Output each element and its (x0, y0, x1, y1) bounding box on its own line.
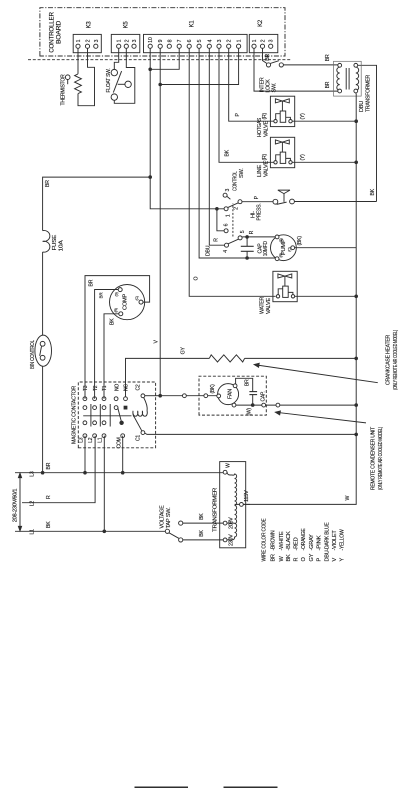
connector K1 pin 8 (167, 44, 171, 48)
svg-text:115V: 115V (244, 489, 250, 502)
junction COM (121, 471, 125, 475)
svg-text:VOLTAGE: VOLTAGE (159, 505, 165, 529)
connector K2 pin 1 (252, 44, 256, 48)
contactor terminal COM (121, 434, 125, 438)
control sw blade 1-2 (228, 203, 239, 208)
line valve LV (270, 137, 294, 167)
connector K5 pin 2 (124, 44, 128, 48)
junction heater on trunk (354, 357, 358, 361)
wire: K1 pin9 V line to coil/fan junction (159, 48, 161, 395)
contactor NC fixed contact (124, 406, 128, 410)
wire cap bottom branch (246, 251, 248, 258)
tap sw contact 208V (179, 521, 183, 525)
svg-text:BK: BK (370, 188, 376, 195)
svg-text:BK: BK (199, 529, 205, 536)
float sw contact c (111, 94, 117, 100)
wire: T2 to comp S (95, 290, 119, 399)
connector K2 pin 2 (260, 44, 264, 48)
contactor NC blade (118, 408, 122, 422)
svg-text:K3: K3 (86, 21, 92, 29)
contactor terminal T2 (93, 397, 97, 401)
svg-text:C2: C2 (135, 384, 141, 390)
svg-text:REMOTE CONDENSER UNIT: REMOTE CONDENSER UNIT (370, 426, 376, 490)
bin control B/C (35, 335, 52, 366)
control sw contact 5 (238, 236, 242, 240)
svg-text:VALVE: VALVE (263, 120, 269, 137)
svg-text:O: O (301, 557, 307, 562)
svg-text:FUSE: FUSE (52, 234, 58, 250)
connector K1 pin 10 (148, 44, 152, 48)
svg-text:L1: L1 (30, 529, 36, 535)
contactor terminal NC (124, 397, 128, 401)
svg-text:HOTGAS: HOTGAS (257, 118, 263, 137)
svg-text:BR: BR (265, 53, 271, 60)
svg-text:1: 1 (117, 39, 123, 42)
contactor gang bar (83, 415, 131, 417)
svg-text:230V: 230V (228, 534, 234, 546)
supply dimension arrows (18, 473, 21, 531)
fan terminal bottom (232, 403, 236, 407)
control sw gang link (232, 204, 234, 237)
connector K2 (249, 34, 277, 52)
control sw contact 3 (223, 193, 227, 197)
junction L1 (103, 530, 107, 534)
pump terminal S (275, 235, 279, 239)
pump motor body (271, 235, 297, 261)
control sw junction dot (215, 207, 219, 211)
svg-text:BR: BR (325, 81, 331, 88)
transformer tap 208V (223, 521, 227, 525)
svg-text:6: 6 (224, 223, 230, 226)
connector K1 pin 6 (187, 44, 191, 48)
svg-text:COM: COM (116, 437, 122, 448)
svg-text:-YELLOW: -YELLOW (340, 529, 346, 551)
wire: 115V tap to trunk W (243, 503, 250, 505)
wire: K1 pin2 P feed to hot gas valve (229, 48, 274, 121)
svg-text:(W): (W) (246, 408, 252, 416)
svg-text:THERMISTOR: THERMISTOR (61, 74, 67, 105)
water valve name (260, 297, 272, 314)
connector K1 pin 5 (197, 44, 201, 48)
transformer terminals (338, 63, 342, 67)
control switch CS (215, 168, 246, 253)
line L1 (15, 530, 165, 532)
wire: K1 pin6 orange feed to water valve (189, 48, 275, 296)
wire: L3 line to contactor COM (122, 436, 124, 473)
svg-text:-DARK BLUE: -DARK BLUE (324, 522, 330, 550)
wire: control sw contact 2 to hi-press (242, 201, 273, 203)
transformer box (334, 61, 362, 96)
contactor coil terminal C2 (141, 394, 145, 398)
hi-press contact 1 (273, 199, 278, 204)
svg-text:9: 9 (158, 39, 164, 42)
condenser fan motor FM (158, 376, 384, 490)
water valve WV (273, 271, 297, 301)
wire: interlock to transformer primary (283, 64, 337, 66)
wire: K1 pin10 feed to control sw (150, 48, 224, 209)
connector K2 pin 3 (269, 44, 273, 48)
wire: BK line to transformer (358, 65, 377, 201)
connector K3 pin 1 (76, 44, 80, 48)
svg-text:BR: BR (270, 554, 276, 561)
bin control blade (40, 346, 42, 355)
connector K3 pin 2 (85, 44, 89, 48)
svg-text:Y: Y (340, 558, 346, 562)
wire: fan W to common trunk (236, 404, 356, 406)
svg-text:-PINK: -PINK (316, 535, 322, 551)
contactor L labels (79, 437, 123, 448)
connector point 3 (262, 403, 266, 407)
float switch FS (106, 48, 135, 103)
svg-text:WIRE COLOR CODE: WIRE COLOR CODE (261, 518, 267, 561)
contactor terminal L3 (83, 434, 87, 438)
connector K1 pin 1 (237, 44, 241, 48)
svg-text:T3: T3 (83, 385, 89, 391)
svg-text:DBU: DBU (206, 245, 212, 256)
contactor bridge bars (90, 404, 92, 427)
pump terminal R (275, 257, 279, 261)
contactor pole contacts moving (83, 421, 87, 425)
compressor motor COMP (85, 276, 150, 399)
svg-text:BR: BR (98, 292, 103, 299)
svg-text:4: 4 (207, 39, 213, 42)
connector point 2 (204, 394, 208, 398)
wire: bin control to L3 line (42, 366, 44, 472)
svg-text:L2: L2 (30, 501, 36, 507)
wire: hot gas valve to common trunk (292, 120, 356, 122)
junction on L3 line (41, 471, 45, 475)
connector K5 pin 1 (117, 44, 121, 48)
svg-text:V: V (153, 340, 159, 344)
connector K1 pin 7 (177, 44, 181, 48)
fan BR branch to capacitor (236, 378, 253, 391)
wire: K5 pin1 to float sw (114, 48, 118, 69)
svg-text:K2: K2 (258, 19, 264, 27)
controller board outline (40, 8, 285, 56)
wire: K2 pin2 to interlock (263, 48, 267, 63)
connector point 1 (183, 394, 187, 398)
hi-press blade (277, 202, 287, 204)
thermistor bulb (67, 80, 69, 85)
connector K1 pin 2 (227, 44, 231, 48)
svg-text:WATER: WATER (260, 297, 266, 314)
contactor terminal T3 (83, 397, 87, 401)
svg-text:3: 3 (269, 39, 275, 42)
tap sw common (165, 529, 169, 533)
remote condenser callout arrow (275, 411, 366, 423)
interlock contact 2 (279, 63, 283, 67)
svg-text:BOARD: BOARD (56, 20, 63, 44)
svg-text:5: 5 (197, 39, 203, 42)
wire: K1 pin7 jumper to pin10 line (150, 48, 179, 69)
controller board label (48, 12, 62, 53)
comp terminal R (119, 312, 123, 316)
svg-text:DBU: DBU (324, 550, 330, 561)
contactor pole contacts fixed (83, 406, 87, 410)
junction cap bottom (245, 256, 249, 260)
control sw blade 4-5 (228, 239, 238, 244)
fan capacitor (249, 391, 257, 393)
comp label (114, 292, 139, 312)
svg-text:(R): (R) (114, 308, 118, 312)
connector K1 pin 4 (207, 44, 211, 48)
junction L3 (83, 471, 87, 475)
connector K1 (144, 34, 248, 52)
svg-text:10A: 10A (58, 240, 64, 252)
svg-text:P: P (254, 195, 260, 199)
svg-text:-RED: -RED (294, 537, 300, 550)
svg-text:L1: L1 (98, 437, 104, 443)
control transformer T1 (DBU) (334, 61, 372, 112)
svg-text:BK: BK (286, 554, 292, 561)
transformer tap 230V (223, 538, 227, 542)
power supply lines (12, 436, 223, 535)
svg-text:CAP.: CAP. (260, 391, 266, 401)
svg-text:(C): (C) (135, 296, 139, 300)
svg-text:3: 3 (217, 39, 223, 42)
svg-text:2: 2 (234, 207, 240, 210)
fan terminal top (217, 394, 221, 398)
wire color code legend (261, 518, 345, 561)
pump terminal C (291, 246, 295, 250)
control sw contact 1 (224, 207, 228, 211)
pump run capacitor CAP 10MFD (241, 245, 254, 247)
remote condenser note (370, 426, 384, 490)
svg-text:1: 1 (252, 39, 258, 42)
connector K1 pin 9 (158, 44, 162, 48)
primary winding (337, 67, 340, 90)
hi-press label (250, 203, 262, 221)
float sw contact b (125, 81, 131, 87)
junction hot gas on trunk (354, 119, 358, 123)
wire: line valve to common trunk (292, 161, 356, 163)
svg-text:2: 2 (261, 39, 267, 42)
pump motor PM (241, 230, 356, 260)
svg-text:BR: BR (46, 462, 52, 469)
power transformer T2 (213, 462, 250, 548)
svg-text:(ONLY REMOTE AIR COOLED MODEL): (ONLY REMOTE AIR COOLED MODEL) (393, 330, 399, 390)
capacitor label (257, 241, 269, 256)
wire: L1 line to contactor L1 (103, 436, 105, 532)
svg-text:BK: BK (225, 149, 231, 156)
transformer winding (227, 472, 239, 540)
junction water valve on trunk (354, 295, 358, 299)
svg-text:BR: BR (89, 279, 95, 286)
svg-text:VALVE: VALVE (263, 160, 269, 177)
magnetic contactor MC (71, 382, 358, 448)
svg-text:R: R (294, 558, 300, 562)
svg-text:(ONLY REMOTE AIR COOLED MODEL): (ONLY REMOTE AIR COOLED MODEL) (378, 427, 384, 490)
svg-text:W: W (279, 556, 285, 562)
svg-text:2: 2 (86, 39, 92, 42)
board edge dashed line (28, 59, 292, 61)
svg-text:2: 2 (227, 39, 233, 42)
line valve name (257, 160, 269, 177)
crankcase heater callout arrow (254, 363, 378, 382)
interlock switch ILS (260, 48, 338, 92)
svg-text:R: R (249, 230, 255, 234)
contactor terminal L1 (102, 434, 106, 438)
fan terminal right (233, 384, 237, 388)
svg-text:208-230V/60/1: 208-230V/60/1 (12, 488, 18, 522)
svg-text:MAGNETIC CONTACTOR: MAGNETIC CONTACTOR (71, 386, 77, 444)
svg-text:BK: BK (199, 513, 205, 520)
svg-text:10: 10 (148, 37, 154, 43)
fan motor body (218, 384, 239, 405)
connector K5 (111, 34, 140, 52)
svg-text:T2: T2 (93, 385, 99, 391)
wire: K1 pin4 R feed to control sw contact 4 (209, 48, 224, 245)
wire: pump C to common trunk (295, 247, 357, 249)
fuse label (52, 234, 64, 251)
contactor terminal NO (114, 397, 118, 401)
svg-text:-BLACK: -BLACK (286, 531, 292, 551)
svg-text:(Y): (Y) (300, 154, 306, 161)
wire: thermistor loop back to K3 pin2 (78, 48, 95, 105)
tap sw blade (169, 533, 179, 539)
svg-text:1: 1 (76, 39, 82, 42)
svg-text:1: 1 (237, 39, 243, 42)
svg-text:(R): (R) (262, 154, 268, 161)
svg-text:R: R (213, 238, 219, 242)
junction V line (158, 394, 162, 398)
svg-text:TAP SW.: TAP SW. (166, 507, 172, 528)
svg-text:(BK): (BK) (210, 384, 216, 394)
transformer name (359, 75, 372, 112)
svg-text:W: W (225, 463, 231, 468)
svg-text:TRANSFORMER: TRANSFORMER (213, 488, 219, 532)
svg-text:-WHITE: -WHITE (279, 531, 285, 551)
wire: K3 pin1 to thermistor (77, 48, 79, 74)
transformer box (220, 462, 246, 548)
connector K3 (73, 34, 101, 52)
voltage tap switch VTS (159, 505, 223, 542)
svg-text:T1: T1 (102, 385, 108, 391)
wire: contact5 to pump R terminal (242, 236, 275, 238)
svg-text:HI-: HI- (250, 211, 256, 218)
svg-text:K5: K5 (124, 21, 130, 29)
svg-text:V: V (332, 558, 338, 562)
wire: C1 to common trunk (145, 433, 357, 434)
line L2 (22, 436, 95, 503)
svg-text:DBU: DBU (359, 101, 365, 112)
wire cap top branch (246, 237, 248, 246)
svg-text:5: 5 (240, 230, 246, 233)
tap sw contact 230V (179, 538, 183, 542)
svg-text:W: W (345, 496, 351, 501)
common trunk wire (244, 93, 357, 504)
wire: BR branch pin10-line to fuse and L3 (43, 177, 151, 231)
wire: V line to fan feed (160, 395, 217, 397)
svg-text:(Y): (Y) (300, 113, 306, 120)
secondary winding (356, 67, 359, 90)
svg-text:BR: BR (245, 379, 251, 386)
comp motor body (110, 285, 145, 320)
svg-text:(BK): (BK) (297, 236, 303, 246)
svg-text:CRANKCASE HEATER: CRANKCASE HEATER (386, 335, 392, 385)
wire: 230V contact to transformer (183, 539, 223, 541)
contactor coil terminal C1 (141, 431, 145, 435)
svg-text:PRESS.: PRESS. (257, 203, 263, 221)
wire: K1 pin5 DBU feed to pump (199, 48, 275, 258)
junction cap top (245, 235, 249, 239)
svg-text:8: 8 (167, 39, 173, 42)
svg-text:FLOAT SW.: FLOAT SW. (106, 68, 112, 93)
float sw contact b stub (118, 83, 125, 85)
comp terminal C (139, 300, 143, 304)
svg-text:TRANSFORMER: TRANSFORMER (366, 75, 372, 112)
svg-text:-GRAY: -GRAY (309, 534, 315, 551)
svg-text:VALVE: VALVE (266, 297, 272, 314)
svg-text:BK: BK (46, 521, 52, 528)
junction line valve on trunk (354, 161, 358, 165)
page footer mark 1 (135, 786, 189, 788)
svg-text:GY: GY (181, 347, 187, 355)
junction C1 wire on trunk (354, 433, 358, 437)
control sw contact 6 (224, 229, 228, 233)
thermistor TH (61, 48, 95, 105)
svg-text:BK: BK (109, 318, 115, 325)
wire: K2 pin1 to transformer primary (254, 48, 338, 91)
svg-text:7: 7 (177, 39, 183, 42)
svg-text:208V: 208V (228, 517, 234, 529)
svg-text:GY: GY (309, 553, 315, 561)
contactor terminal L2 (93, 434, 97, 438)
svg-text:SW.: SW. (239, 168, 245, 178)
hot gas valve name (257, 118, 269, 137)
wire: water valve to common trunk (295, 295, 356, 297)
wire: hi-press to BK riser (294, 201, 376, 203)
svg-text:2: 2 (124, 39, 130, 42)
wire: L3 to contactor L3 (84, 436, 86, 473)
wire: K1 pin1 jumper to pin9 line (160, 48, 238, 84)
tap sw name (159, 505, 172, 529)
connector K3 pin 3 (94, 44, 98, 48)
svg-text:(C): (C) (287, 247, 291, 251)
wire: 208V contact to transformer (183, 522, 223, 524)
thermistor resistor element (75, 74, 82, 94)
svg-text:3: 3 (132, 39, 138, 42)
junction BR branch on pin10 line (148, 175, 152, 179)
contactor coil MC coil (133, 398, 147, 431)
control sw jumper 1-6 (217, 209, 224, 231)
heater resistor element (209, 355, 244, 362)
fuse F1 10A (43, 230, 50, 252)
svg-text:BR: BR (45, 180, 51, 187)
svg-text:K1: K1 (190, 20, 196, 28)
interlock name (260, 77, 278, 92)
wire: capacitor to W wire (252, 395, 254, 406)
svg-text:L3: L3 (79, 437, 85, 443)
svg-text:P: P (235, 113, 241, 117)
wire: T3 BR to comp C (85, 276, 150, 399)
comp terminal S (118, 288, 122, 292)
svg-text:NC: NC (124, 384, 130, 391)
control sw labels (223, 189, 246, 253)
svg-text:4: 4 (223, 250, 229, 253)
hi-pressure switch HP (250, 190, 294, 220)
crankcase heater CH (126, 330, 400, 397)
junction pin7/pin10 (148, 68, 152, 72)
remote condenser dashed enclosure (199, 376, 266, 415)
svg-text:NO: NO (114, 384, 120, 391)
svg-text:CONTROL: CONTROL (233, 171, 239, 191)
svg-text:6: 6 (187, 39, 193, 42)
svg-text:(S): (S) (279, 238, 283, 242)
svg-text:3: 3 (94, 39, 100, 42)
wire: heater to common trunk (245, 357, 357, 359)
hot gas valve HGV (270, 96, 294, 126)
